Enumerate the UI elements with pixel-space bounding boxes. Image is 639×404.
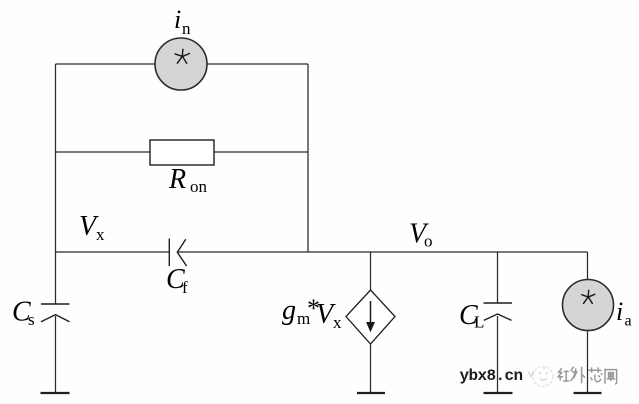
svg-text:o: o [424,232,433,251]
svg-text:ybx8.cn: ybx8.cn [460,367,523,385]
watermark text wen (闻) [605,369,617,384]
current source in (circle) [155,38,207,90]
star symbol in in [175,49,189,63]
ground under ia [574,392,602,394]
ground under gm source [357,392,385,394]
wire top-left horizontal [56,63,156,65]
wire CL bottom [497,316,499,392]
ground under Cs [41,392,70,394]
star symbol in ia [582,290,595,303]
wire left vertical main [55,64,57,304]
wire ia bottom [587,330,589,392]
svg-text:R: R [168,164,186,195]
wire gm source bottom [370,344,372,392]
wire Ron row right [214,151,308,153]
wire right vertical from top to Vo rail [307,64,309,252]
svg-text:f: f [182,278,188,297]
svg-text:i: i [616,297,623,326]
resistor Ron [150,140,214,165]
wire Cs bottom [55,316,57,392]
watermark text wai (外) [570,367,585,384]
watermark text xin (芯) [588,367,602,381]
svg-text:g: g [282,295,296,326]
svg-text:a: a [625,313,632,330]
wire Ron row left [56,151,151,153]
svg-text:s: s [28,310,35,329]
wire Vx rail [56,251,170,253]
wire gm source top [370,252,372,290]
ground under CL [484,392,513,394]
current source ia (circle) [563,280,614,331]
wire ia top [587,252,589,280]
wire top-right horizontal [207,63,308,65]
watermark text hong (红) [558,368,569,381]
wire Vo rail [178,251,588,253]
dependent source gm*Vx (diamond) [346,290,395,344]
capacitor Cf [169,239,186,267]
wire CL top [497,252,499,303]
capacitor CL [484,303,513,320]
svg-text:x: x [333,313,342,332]
svg-text:i: i [174,5,181,34]
capacitor Cs [41,304,70,322]
svg-text:L: L [474,313,484,332]
watermark logo circle [529,366,554,387]
arrow inside gm source [367,301,374,331]
svg-text:on: on [190,177,208,196]
svg-text:n: n [182,19,191,38]
svg-text:x: x [96,225,105,244]
